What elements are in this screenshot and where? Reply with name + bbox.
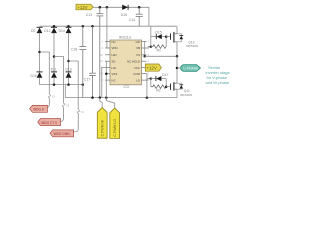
svg-text:VB: VB	[136, 46, 140, 50]
junction bus x68.5	[67, 25, 70, 28]
svg-text:WDG U: WDG U	[33, 108, 45, 112]
node WDG U tag	[30, 105, 50, 113]
junction gnd SD/VSS	[105, 96, 108, 99]
junction VSS stub	[105, 72, 108, 75]
svg-text:D12: D12	[44, 29, 50, 33]
wire phase column U x39.5	[39, 33, 41, 72]
squiggle Y2	[48, 90, 55, 105]
svg-text:SD: SD	[112, 59, 116, 63]
IC3 left pin names	[112, 40, 118, 83]
svg-text:IRF540N: IRF540N	[180, 93, 192, 97]
IC3 right pin names	[127, 40, 141, 83]
wire ground bus y97.6	[65, 97, 177, 99]
svg-text:R2: R2	[156, 89, 160, 93]
svg-text:D15: D15	[155, 31, 161, 35]
capacitor C14	[136, 7, 143, 26]
junction C13 top	[99, 6, 102, 9]
svg-text:Y3: Y3	[66, 104, 70, 108]
resistor R2	[151, 85, 166, 93]
wire phase tag stub	[177, 67, 181, 69]
wire gate network left vertical	[150, 26, 152, 46]
svg-text:C PWM HI: C PWM HI	[101, 120, 105, 137]
IC3 right pin stubs	[142, 42, 147, 81]
junction bus C18	[82, 25, 85, 28]
wire HV bus rail y26	[40, 25, 177, 27]
wire VS to phase	[145, 55, 177, 57]
svg-text:VDD: VDD	[112, 46, 118, 50]
junction branch 2	[53, 55, 56, 58]
svg-text:D14: D14	[59, 29, 65, 33]
junction gnd C13	[99, 96, 102, 99]
svg-text:and W-phase: and W-phase	[206, 80, 230, 85]
svg-text:HO: HO	[136, 40, 141, 44]
node C PWM HI vertical tag	[97, 108, 107, 139]
svg-text:+12V: +12V	[146, 65, 157, 70]
junction phase lower	[176, 67, 179, 70]
annotation similar inverter note	[206, 65, 231, 85]
capacitor C17	[89, 26, 96, 97]
wire LO to lower gate network	[147, 79, 151, 81]
svg-text:C PWM LO: C PWM LO	[113, 119, 117, 137]
wire gate network right vertical	[165, 37, 167, 47]
svg-text:VCC: VCC	[134, 66, 140, 70]
junction C14 top (VB node)	[138, 6, 141, 9]
svg-text:WDG CT V: WDG CT V	[41, 121, 58, 125]
junction VS node	[143, 55, 146, 58]
wire VB to gate network	[147, 47, 151, 48]
diode D17	[151, 73, 169, 81]
svg-text:C17: C17	[84, 77, 90, 81]
junction lower network left node	[150, 77, 153, 80]
wire to Q13 gate	[166, 36, 170, 38]
svg-text:WDG CMN: WDG CMN	[54, 132, 71, 136]
Q13 body diode	[177, 34, 183, 42]
node +12V top tag	[76, 4, 93, 10]
diode D12	[44, 27, 57, 33]
transistor Q11	[171, 82, 193, 97]
svg-text:Y1: Y1	[80, 110, 84, 114]
IC IC3 IR2113 body	[110, 35, 142, 88]
capacitor C13	[96, 7, 103, 97]
svg-text:D16: D16	[121, 13, 127, 17]
diode D15	[151, 31, 166, 40]
squiggle Y3	[62, 103, 69, 119]
resistor R1	[151, 45, 166, 53]
diode D16	[121, 5, 128, 17]
svg-text:D13: D13	[65, 68, 71, 72]
diode D14	[59, 27, 72, 33]
wire lower rail to ground bus	[64, 85, 66, 98]
svg-text:C13: C13	[86, 13, 92, 17]
svg-text:Y2: Y2	[52, 95, 56, 99]
svg-text:VSS: VSS	[112, 72, 118, 76]
wire +12V rail y7	[94, 6, 149, 8]
junction gate network left node	[150, 45, 153, 48]
wire branch 1	[40, 52, 50, 90]
svg-text:D10: D10	[31, 74, 37, 78]
IC3 pin numbers	[100, 41, 149, 83]
wire phase vertical	[176, 56, 178, 83]
svg-text:VS: VS	[136, 53, 140, 57]
svg-text:NC HOLD: NC HOLD	[127, 59, 140, 63]
junction bus x54	[53, 25, 56, 28]
wire lower network left vertical	[150, 79, 152, 87]
node WDG V tag	[38, 119, 64, 126]
junction lower rail x54	[53, 83, 56, 86]
wire to Q11 gate	[166, 86, 170, 88]
IC3 left pin stubs	[105, 42, 110, 81]
junction lower rail x68.5	[67, 83, 70, 86]
svg-text:IRF540N: IRF540N	[186, 44, 198, 48]
wire PWM HI tag lead	[100, 98, 102, 108]
svg-text:U PHASE: U PHASE	[183, 66, 199, 70]
svg-text:NC: NC	[112, 40, 116, 44]
junction VDD wire top	[106, 6, 109, 9]
wire branch 3	[69, 61, 79, 110]
Q11 body diode	[177, 83, 183, 89]
wire lower network right vertical	[165, 79, 167, 87]
svg-text:C14: C14	[129, 18, 135, 22]
wire HO to VS node	[145, 42, 147, 57]
svg-text:D11: D11	[51, 68, 57, 72]
svg-text:D17: D17	[162, 73, 168, 77]
squiggle Y1	[77, 110, 84, 131]
junction lower network right node	[165, 85, 168, 88]
wire SD/VSS drop x106.3	[105, 61, 107, 97]
junction branch 3	[67, 60, 70, 63]
junction gnd C17	[91, 96, 94, 99]
junction gnd COM	[146, 96, 149, 99]
capacitor C18	[79, 26, 86, 97]
svg-text:IR2113: IR2113	[119, 35, 131, 39]
svg-text:HIN: HIN	[112, 53, 117, 57]
junction lower rail C18 line	[82, 83, 85, 86]
node +12V VCC tag	[145, 64, 161, 71]
svg-text:COM: COM	[133, 72, 140, 76]
junction gate network right node	[165, 35, 168, 38]
junction phase upper	[176, 55, 179, 58]
wire LIN drop x101.8	[102, 68, 105, 98]
wire lower diode rail y84.6	[40, 84, 83, 86]
node C PWM LO vertical tag	[110, 108, 120, 138]
wire COM drop	[146, 74, 148, 98]
junction branch 1	[38, 51, 41, 54]
wire phase column V x54	[53, 33, 55, 72]
diode D13	[65, 68, 71, 85]
wire branch 2	[54, 57, 64, 104]
node WDG CMN tag	[50, 130, 78, 137]
svg-text:+12V: +12V	[77, 5, 87, 10]
node U PHASE teal tag	[181, 65, 201, 72]
svg-text:IC3: IC3	[124, 85, 129, 89]
wire phase column W x68.5	[68, 33, 70, 72]
diode D9	[31, 27, 43, 33]
svg-text:NC: NC	[112, 78, 116, 82]
junction bus C17	[91, 25, 94, 28]
diode D11	[51, 68, 57, 85]
wire +12V corner down at x149	[148, 7, 150, 26]
diode D10	[31, 72, 43, 85]
wire PWM LO tag lead	[106, 98, 114, 108]
transistor Q13	[171, 26, 199, 56]
svg-text:R1: R1	[157, 48, 161, 52]
svg-text:D9: D9	[31, 29, 35, 33]
svg-text:LIN: LIN	[112, 66, 117, 70]
svg-text:C18: C18	[71, 47, 77, 51]
wire VDD drop x106.9	[106, 7, 108, 48]
